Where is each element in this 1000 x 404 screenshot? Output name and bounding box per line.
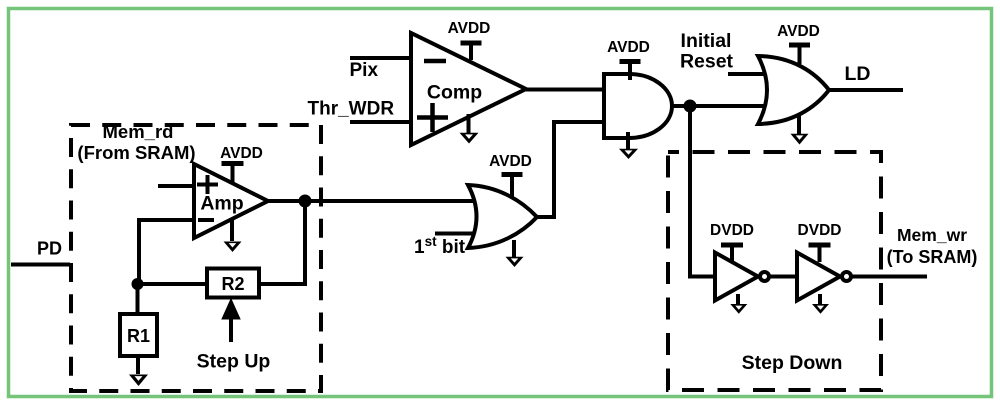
svg-text:AVDD: AVDD bbox=[448, 20, 491, 37]
ground below Comp bbox=[460, 114, 479, 144]
pin + of Amp bbox=[197, 175, 218, 194]
wire PD input bbox=[11, 263, 70, 267]
resistor R2 bbox=[207, 269, 259, 298]
wire Mem_wr output bbox=[853, 275, 928, 279]
ground below Amp bbox=[224, 220, 242, 252]
wire Amp + input bbox=[158, 184, 194, 188]
wire Amp - input feedback bbox=[139, 220, 194, 284]
wire Comp output bbox=[526, 88, 604, 92]
svg-text:(To SRAM): (To SRAM) bbox=[887, 247, 978, 267]
node feedback junction bbox=[132, 278, 144, 290]
or-gate U4 bbox=[758, 56, 829, 124]
svg-text:DVDD: DVDD bbox=[798, 222, 842, 239]
svg-text:Mem_wr: Mem_wr bbox=[897, 225, 967, 245]
pin - of Amp bbox=[198, 218, 214, 222]
svg-text:Step Up: Step Up bbox=[197, 351, 271, 373]
dashed box Step Down bbox=[668, 152, 881, 390]
wire R2 to Amp output node bbox=[259, 201, 305, 284]
svg-text:Comp: Comp bbox=[427, 82, 482, 104]
ground below OR2 bbox=[791, 116, 809, 145]
label Initial Reset bbox=[680, 30, 734, 73]
power AVDD for OR2 bbox=[777, 23, 820, 64]
ground below R1 bbox=[129, 356, 148, 386]
and-gate U3 bbox=[604, 74, 672, 138]
node Amp output junction bbox=[299, 195, 312, 208]
label Mem_wr (To SRAM) bbox=[887, 225, 978, 267]
resistor R1 bbox=[120, 314, 157, 356]
inverter U7 bbox=[797, 253, 851, 301]
wire node down to inverters bbox=[690, 106, 715, 277]
svg-text:AVDD: AVDD bbox=[489, 153, 532, 170]
power AVDD for Comp bbox=[448, 20, 491, 60]
wire Thr_WDR input bbox=[350, 120, 411, 124]
wire node to R1 bbox=[136, 284, 140, 314]
op-amp U1 Amp bbox=[194, 164, 268, 238]
wire node to OR2 input bbox=[690, 104, 780, 108]
arrow Step Up bbox=[222, 299, 240, 342]
label 1st bit bbox=[414, 234, 466, 258]
svg-text:AVDD: AVDD bbox=[220, 145, 263, 162]
wire Initial Reset input bbox=[728, 72, 775, 76]
node LD junction bbox=[684, 100, 697, 113]
svg-text:Pix: Pix bbox=[350, 60, 379, 81]
svg-text:LD: LD bbox=[845, 63, 871, 85]
or-gate U5 bbox=[468, 185, 537, 248]
label Mem_rd (From SRAM) bbox=[77, 121, 195, 163]
wire LD output bbox=[829, 88, 903, 92]
pin + of Comp bbox=[417, 103, 448, 132]
wire OR1 output to AND input bbox=[537, 122, 604, 217]
power DVDD for inverter U7 bbox=[798, 222, 842, 262]
wire Amp node to OR1 input bbox=[305, 199, 482, 203]
pin - of Comp bbox=[424, 59, 446, 64]
node PD bbox=[37, 239, 62, 259]
wire 1st bit input bbox=[435, 232, 487, 236]
svg-text:Step Down: Step Down bbox=[742, 352, 843, 374]
power AVDD for Amp bbox=[220, 145, 263, 183]
svg-text:1st bit: 1st bit bbox=[414, 234, 466, 258]
inverter U6 bbox=[715, 253, 769, 301]
comparator U2 Comp bbox=[411, 33, 526, 145]
ground below OR1 bbox=[506, 240, 524, 267]
svg-text:DVDD: DVDD bbox=[710, 222, 754, 239]
svg-text:Mem_rd: Mem_rd bbox=[103, 121, 174, 142]
dashed box Mem_rd bbox=[71, 125, 321, 391]
svg-text:(From SRAM): (From SRAM) bbox=[77, 142, 195, 163]
svg-text:Thr_WDR: Thr_WDR bbox=[308, 98, 395, 119]
ground below inverter U7 bbox=[812, 294, 829, 314]
ground below inverter U6 bbox=[730, 294, 747, 314]
wire between inverters bbox=[771, 275, 798, 279]
power DVDD for inverter U6 bbox=[710, 222, 754, 262]
svg-text:AVDD: AVDD bbox=[607, 39, 650, 56]
power AVDD for AND bbox=[607, 39, 650, 80]
svg-text:Amp: Amp bbox=[200, 193, 243, 215]
power AVDD for OR1 bbox=[489, 153, 532, 198]
svg-text:AVDD: AVDD bbox=[777, 23, 820, 40]
svg-text:R1: R1 bbox=[127, 326, 150, 346]
wire Amp output bbox=[268, 199, 305, 203]
svg-text:R2: R2 bbox=[221, 274, 244, 294]
svg-text:Initial: Initial bbox=[681, 30, 732, 52]
wire Pix input bbox=[350, 56, 411, 60]
ground below AND bbox=[619, 132, 638, 159]
wire AND output bbox=[672, 104, 690, 108]
svg-text:Reset: Reset bbox=[680, 51, 734, 73]
wire node to R2 bbox=[137, 282, 207, 286]
svg-text:PD: PD bbox=[37, 239, 62, 259]
